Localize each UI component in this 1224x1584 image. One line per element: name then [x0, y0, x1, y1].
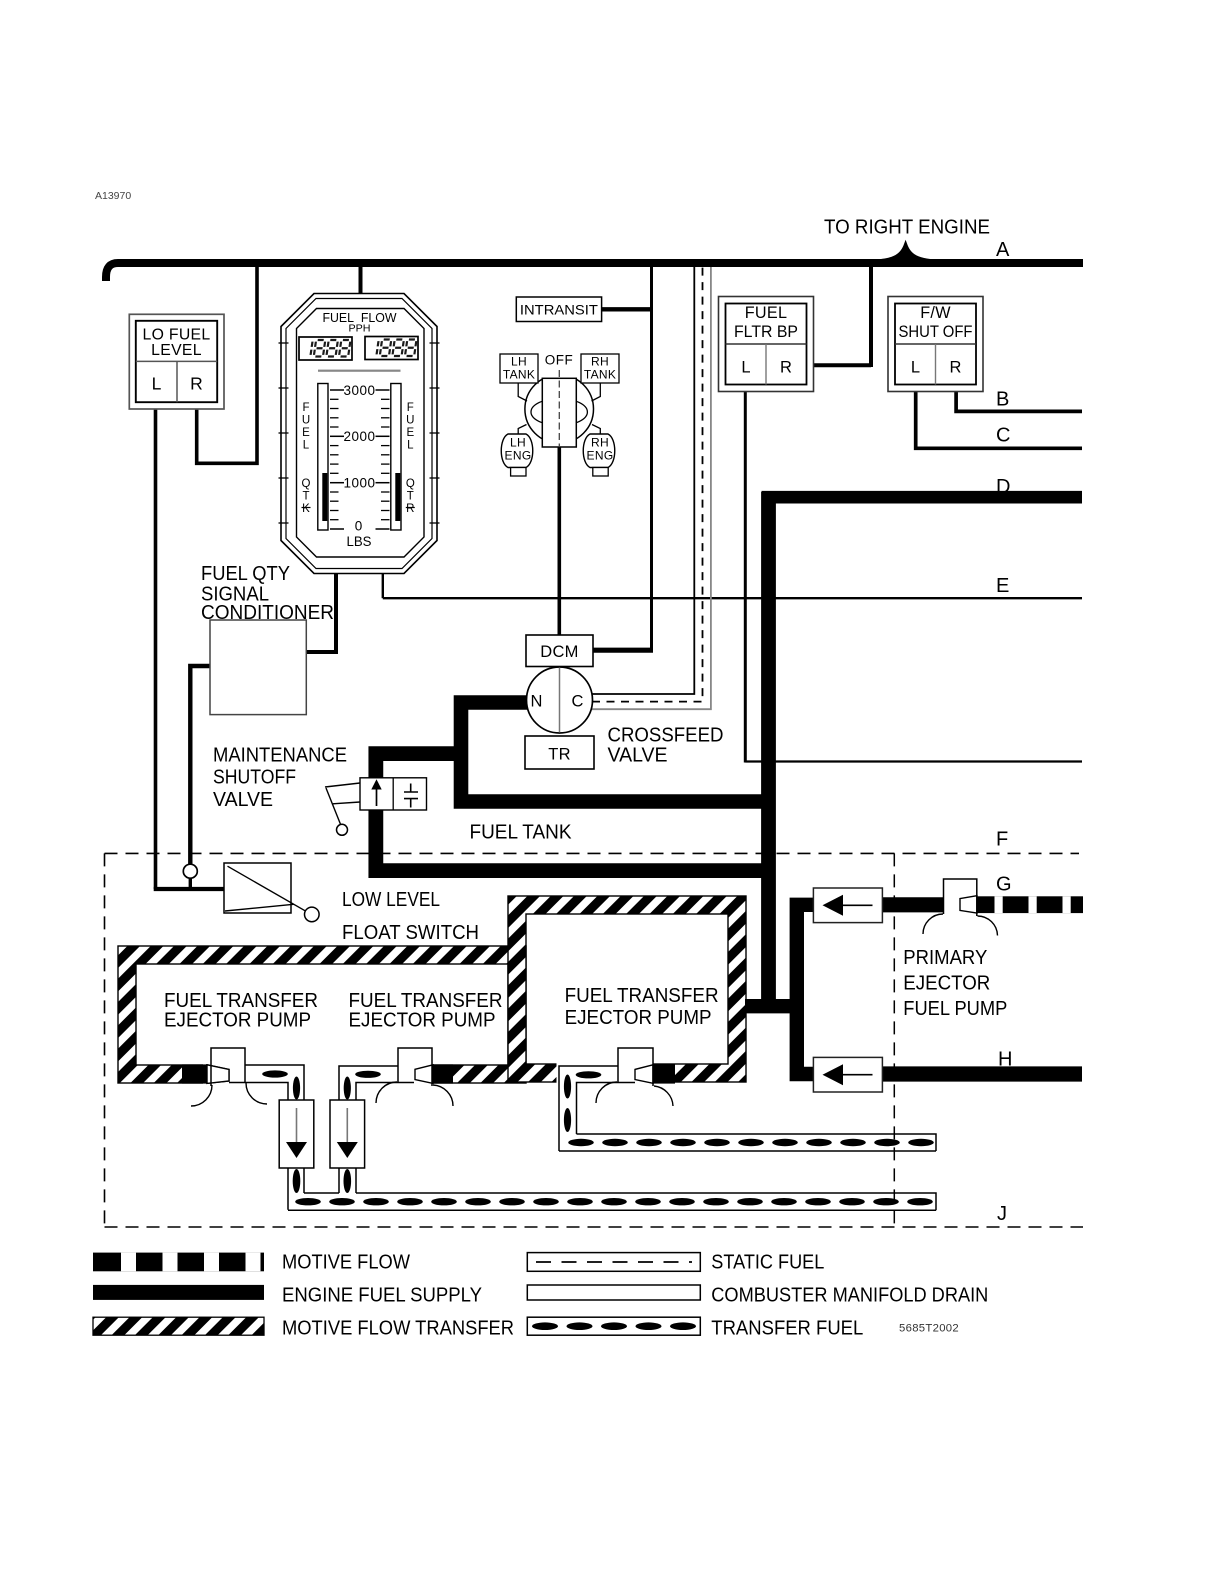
svg-text:U: U: [302, 415, 310, 427]
svg-text:TR: TR: [548, 746, 571, 764]
svg-text:LOW LEVEL: LOW LEVEL: [342, 889, 440, 911]
svg-text:SHUTOFF: SHUTOFF: [213, 767, 296, 789]
svg-text:RH: RH: [591, 436, 609, 450]
svg-text:DCM: DCM: [540, 643, 578, 661]
svg-text:D: D: [996, 476, 1010, 498]
svg-text:E: E: [302, 427, 310, 439]
svg-text:1000: 1000: [343, 476, 375, 491]
svg-text:Q: Q: [406, 478, 415, 490]
svg-text:U: U: [406, 415, 414, 427]
svg-text:N: N: [531, 693, 543, 711]
svg-text:LEVEL: LEVEL: [151, 342, 202, 359]
svg-text:EJECTOR PUMP: EJECTOR PUMP: [349, 1010, 496, 1032]
svg-text:TRANSFER FUEL: TRANSFER FUEL: [711, 1318, 863, 1340]
svg-text:J: J: [997, 1203, 1007, 1225]
svg-text:ENG: ENG: [505, 449, 532, 463]
svg-text:F: F: [407, 402, 414, 414]
svg-text:FUEL PUMP: FUEL PUMP: [903, 998, 1007, 1020]
svg-text:RH: RH: [591, 355, 609, 369]
svg-text:T: T: [407, 491, 414, 503]
svg-text:TANK: TANK: [584, 368, 616, 382]
svg-text:3000: 3000: [343, 383, 375, 398]
svg-text:FUEL: FUEL: [745, 304, 788, 322]
svg-text:L: L: [407, 440, 414, 452]
svg-text:COMBUSTER MANIFOLD DRAIN: COMBUSTER MANIFOLD DRAIN: [711, 1285, 988, 1307]
svg-text:TANK: TANK: [503, 368, 535, 382]
svg-text:B: B: [996, 389, 1009, 411]
svg-text:FUEL TANK: FUEL TANK: [470, 821, 572, 844]
svg-text:EJECTOR PUMP: EJECTOR PUMP: [565, 1007, 712, 1029]
svg-text:R: R: [190, 374, 203, 394]
svg-text:INTRANSIT: INTRANSIT: [520, 303, 598, 318]
svg-text:LBS: LBS: [347, 533, 372, 549]
svg-text:A13970: A13970: [95, 190, 131, 202]
svg-text:EJECTOR: EJECTOR: [903, 973, 990, 995]
svg-text:L: L: [303, 440, 310, 452]
svg-text:R: R: [950, 359, 962, 377]
svg-text:5685T2002: 5685T2002: [899, 1323, 959, 1335]
svg-text:ENG: ENG: [587, 449, 614, 463]
svg-text:L: L: [152, 374, 162, 394]
svg-text:CROSSFEED: CROSSFEED: [608, 725, 724, 747]
svg-text:T: T: [302, 491, 309, 503]
svg-text:F: F: [996, 828, 1008, 850]
svg-text:C: C: [996, 425, 1010, 447]
svg-text:E: E: [406, 427, 414, 439]
svg-text:CONDITIONER: CONDITIONER: [201, 602, 334, 624]
svg-text:MAINTENANCE: MAINTENANCE: [213, 744, 347, 766]
svg-text:LH: LH: [511, 355, 527, 369]
svg-text:ENGINE FUEL SUPPLY: ENGINE FUEL SUPPLY: [282, 1285, 482, 1307]
svg-text:FLTR BP: FLTR BP: [734, 323, 798, 341]
svg-text:L: L: [911, 359, 920, 377]
svg-text:C: C: [572, 693, 584, 711]
svg-text:LO FUEL: LO FUEL: [143, 327, 211, 344]
svg-text:VALVE: VALVE: [213, 789, 273, 811]
svg-text:2000: 2000: [343, 429, 375, 444]
svg-text:A: A: [996, 239, 1010, 261]
svg-text:PRIMARY: PRIMARY: [903, 947, 987, 969]
svg-text:L: L: [741, 359, 750, 377]
svg-text:K: K: [302, 503, 310, 515]
svg-text:Q: Q: [302, 478, 311, 490]
svg-text:VALVE: VALVE: [608, 745, 668, 767]
svg-text:H: H: [998, 1049, 1012, 1071]
svg-text:MOTIVE FLOW TRANSFER: MOTIVE FLOW TRANSFER: [282, 1318, 514, 1340]
svg-text:OFF: OFF: [545, 353, 574, 368]
svg-text:R: R: [406, 503, 414, 515]
svg-text:F: F: [302, 402, 309, 414]
svg-text:SHUT OFF: SHUT OFF: [899, 323, 973, 341]
svg-text:EJECTOR PUMP: EJECTOR PUMP: [164, 1010, 311, 1032]
svg-text:E: E: [996, 575, 1009, 597]
svg-text:LH: LH: [510, 436, 526, 450]
svg-text:G: G: [996, 873, 1012, 895]
svg-text:FUEL QTY: FUEL QTY: [201, 563, 290, 585]
svg-text:F/W: F/W: [920, 304, 951, 322]
svg-text:MOTIVE FLOW: MOTIVE FLOW: [282, 1252, 410, 1274]
svg-text:PPH: PPH: [349, 323, 371, 335]
svg-text:TO RIGHT ENGINE: TO RIGHT ENGINE: [824, 217, 990, 239]
svg-text:0: 0: [355, 519, 363, 534]
svg-text:STATIC FUEL: STATIC FUEL: [711, 1252, 824, 1274]
svg-text:FUEL TRANSFER: FUEL TRANSFER: [565, 985, 719, 1007]
svg-text:R: R: [780, 359, 792, 377]
svg-text:FLOAT SWITCH: FLOAT SWITCH: [342, 922, 479, 944]
